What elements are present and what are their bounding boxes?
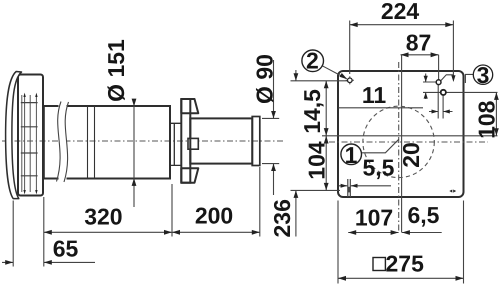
svg-text:1: 1 [345, 142, 358, 168]
svg-text:108: 108 [474, 100, 500, 139]
svg-text:20: 20 [398, 142, 424, 168]
svg-text:Ø 90: Ø 90 [252, 54, 278, 104]
svg-text:236: 236 [269, 199, 295, 237]
svg-text:224: 224 [381, 0, 420, 24]
svg-text:5,5: 5,5 [363, 155, 395, 181]
svg-text:3: 3 [477, 62, 490, 88]
svg-text:65: 65 [53, 236, 79, 262]
svg-text:320: 320 [84, 204, 122, 230]
svg-text:104: 104 [304, 141, 330, 180]
svg-text:2: 2 [306, 48, 319, 74]
svg-text:107: 107 [355, 204, 393, 230]
svg-text:275: 275 [386, 251, 425, 277]
svg-text:6,5: 6,5 [408, 202, 440, 228]
svg-text:87: 87 [406, 30, 432, 56]
svg-text:11: 11 [362, 82, 387, 108]
svg-text:14,5: 14,5 [299, 89, 325, 134]
svg-text:200: 200 [195, 203, 233, 229]
svg-text:Ø 151: Ø 151 [103, 39, 129, 102]
